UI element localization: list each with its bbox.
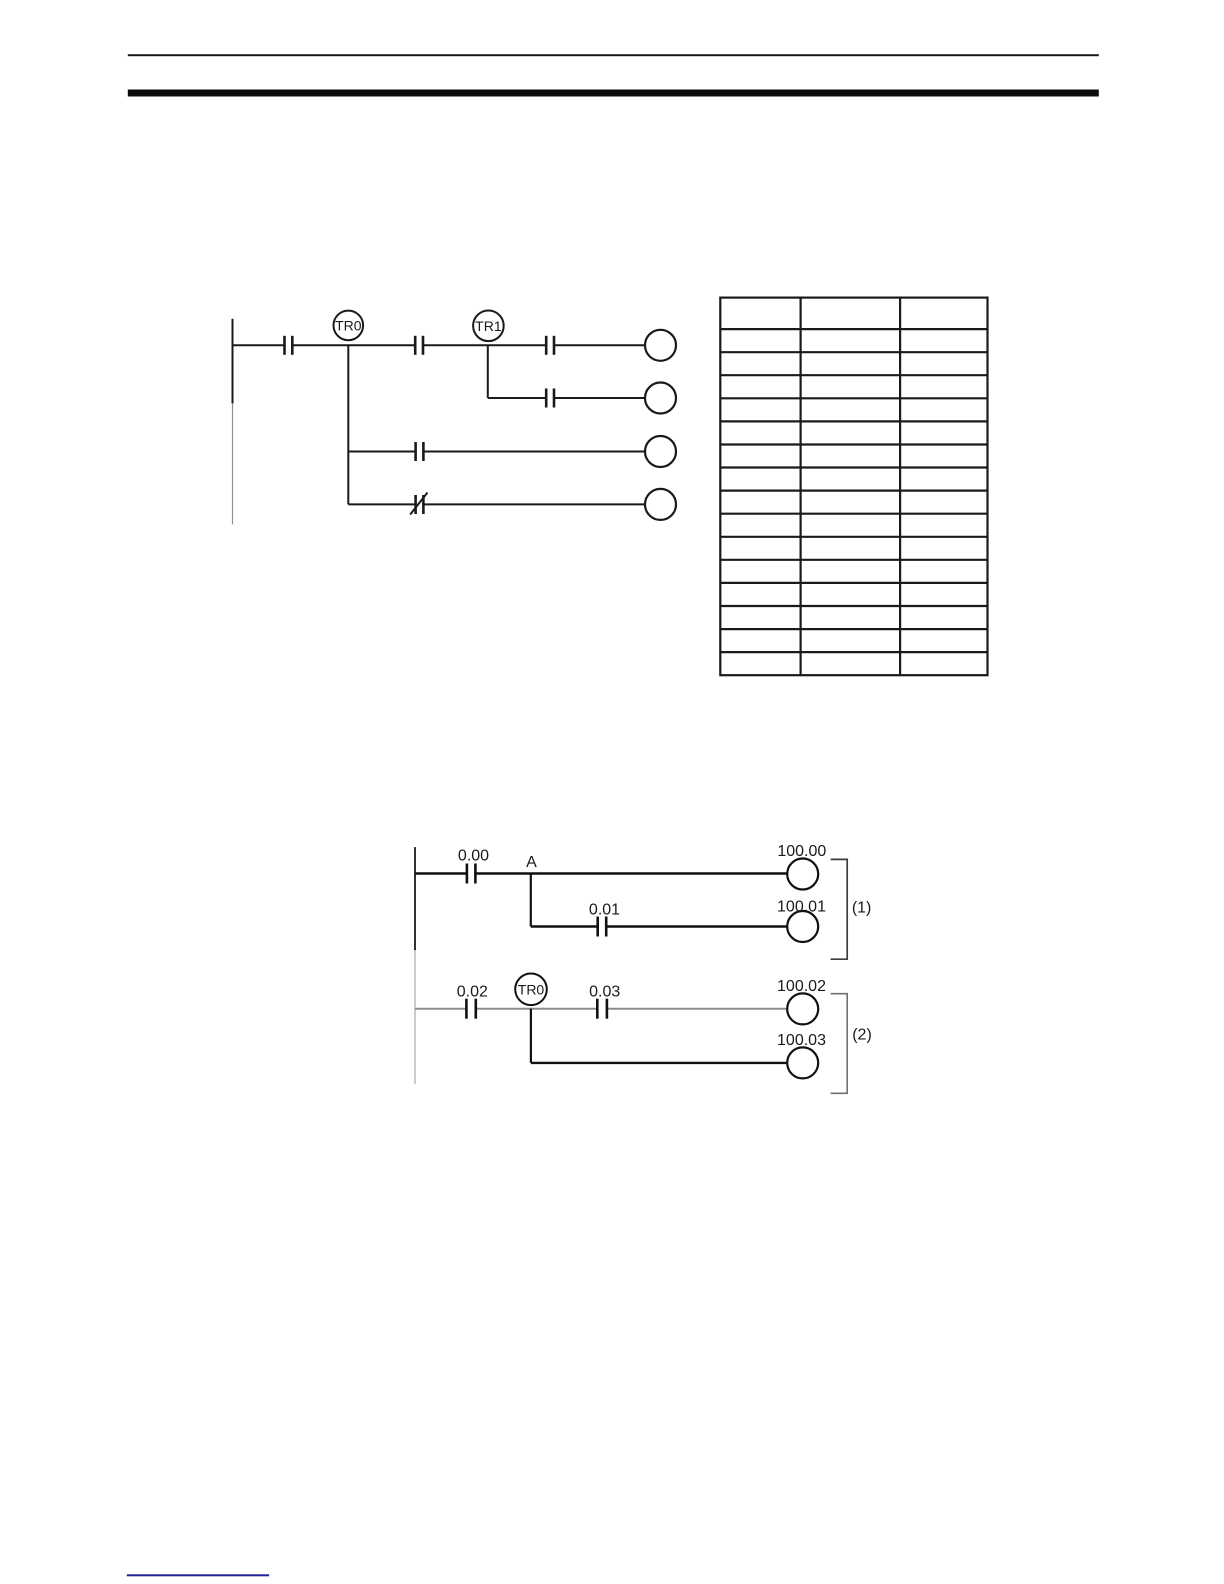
TR1 temporary relay: [473, 311, 504, 342]
wire rung3: [348, 451, 645, 453]
contact 0.02: [466, 999, 475, 1019]
svg-text:0.01: 0.01: [589, 902, 620, 919]
contact 2 rung1: [415, 336, 423, 355]
left bus bar (faded lower part): [232, 403, 234, 524]
wire rung4 d2: [531, 1062, 787, 1064]
contact 1 rung1: [285, 336, 293, 355]
wire rung1 d2: [415, 872, 787, 874]
contact rung2: [546, 389, 554, 408]
left bus bar (dark part): [232, 319, 234, 404]
wire node A branch: [530, 874, 532, 927]
table outer border: [720, 298, 987, 676]
svg-text:(1): (1): [852, 900, 872, 917]
wire rung1: [233, 344, 285, 346]
svg-text:0.03: 0.03: [589, 984, 620, 1001]
svg-text:TR0: TR0: [518, 981, 545, 997]
bracket (2): [831, 994, 848, 1094]
contact 0.01: [598, 917, 607, 937]
table row lines: [720, 328, 987, 330]
svg-text:0.00: 0.00: [458, 848, 489, 865]
coil 100.01: [787, 911, 818, 942]
coil rung1: [645, 330, 676, 361]
svg-text:100.01: 100.01: [777, 898, 826, 915]
coil 100.03: [787, 1047, 818, 1078]
footer blue rule: [127, 1574, 269, 1576]
contact 0.00: [467, 864, 476, 884]
header thin rule: [128, 54, 1099, 56]
wire rung4: [348, 503, 645, 505]
coil 100.02: [787, 993, 818, 1024]
svg-text:0.02: 0.02: [457, 984, 488, 1001]
NC slash rung4: [410, 493, 427, 515]
header thick bar: [128, 90, 1099, 97]
coil 100.00: [787, 859, 818, 890]
wire TR0 branch: [347, 345, 349, 504]
wire rung2 d2: [531, 925, 787, 927]
wire rung3 d2 (faded): [415, 1008, 787, 1010]
wire rung2: [488, 397, 645, 399]
svg-text:A: A: [526, 854, 537, 871]
wire TR0 branch d2: [530, 1009, 532, 1063]
wire TR1 branch: [487, 345, 489, 398]
svg-text:(2): (2): [852, 1027, 872, 1044]
svg-text:TR1: TR1: [475, 318, 502, 334]
bracket (1): [831, 859, 848, 959]
contact rung3: [416, 442, 424, 461]
coil rung2: [645, 383, 676, 414]
TR0 temporary relay: [334, 311, 364, 341]
svg-text:100.02: 100.02: [777, 978, 826, 995]
svg-text:100.03: 100.03: [777, 1032, 826, 1049]
left bus bar group2 (faded): [414, 950, 416, 1084]
coil rung3: [645, 436, 676, 467]
contact 3 rung1: [546, 336, 554, 355]
table column line 1: [799, 298, 801, 676]
contact rung4 (NC): [416, 495, 424, 514]
table column line 2: [899, 298, 901, 676]
svg-text:TR0: TR0: [335, 317, 362, 333]
svg-text:100.00: 100.00: [777, 843, 826, 860]
coil rung4: [645, 489, 676, 520]
contact 0.03: [597, 999, 607, 1019]
TR0 temporary relay d2: [515, 974, 547, 1006]
left bus bar group1 (dark): [414, 847, 416, 950]
